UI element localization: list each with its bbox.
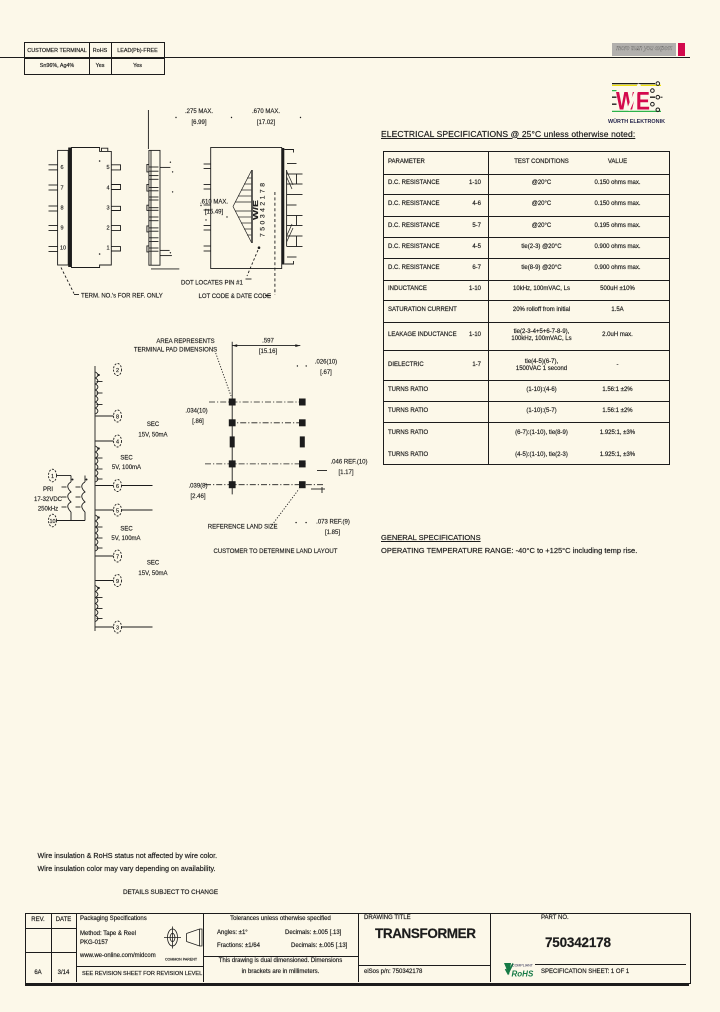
header row	[388, 159, 425, 166]
label SEC 5V 100mA (W3)	[111, 527, 140, 543]
primary label	[34, 487, 63, 513]
top/bottom hooks	[284, 150, 293, 153]
pin1 index notch	[102, 148, 108, 151]
dimension .026(10)	[297, 365, 298, 366]
land pads left column	[229, 399, 236, 489]
pin numbers	[60, 165, 110, 252]
top border line	[0, 57, 690, 58]
svg-text:SEC: SEC	[147, 561, 160, 567]
svg-text:6: 6	[61, 165, 64, 171]
body	[72, 148, 112, 268]
row 6	[388, 286, 427, 293]
right pins	[287, 164, 303, 258]
svg-text:.073 REF.(9): .073 REF.(9)	[316, 520, 350, 526]
svg-text:[6.99]: [6.99]	[191, 120, 206, 126]
wire pin 9 to W4	[96, 580, 114, 582]
spec table	[383, 151, 670, 152]
svg-text:9: 9	[116, 579, 119, 585]
terminal strip	[58, 150, 69, 265]
pin 7	[114, 550, 122, 562]
svg-text:PRI: PRI	[43, 487, 53, 493]
label SEC 5V 100mA (W2)	[112, 456, 141, 472]
svg-text:[.86]: [.86]	[192, 419, 204, 425]
svg-text:8: 8	[116, 415, 119, 421]
row 7	[388, 307, 457, 314]
row 10	[388, 387, 428, 394]
bottom heavy line	[25, 984, 689, 986]
svg-text:REFERENCE LAND SIZE: REFERENCE LAND SIZE	[208, 525, 278, 531]
transformer T1 secondary winding W3 (pins 5-7)	[96, 515, 103, 551]
right pins	[111, 165, 120, 251]
svg-text:4: 4	[116, 440, 119, 446]
row 2	[388, 201, 440, 208]
svg-text:5: 5	[106, 165, 109, 171]
svg-text:3: 3	[106, 206, 109, 212]
svg-text:[1.17]: [1.17]	[338, 470, 353, 476]
svg-text:1: 1	[51, 474, 54, 480]
svg-text:4: 4	[106, 186, 109, 192]
projection symbol	[160, 920, 206, 962]
svg-text:W/E: W/E	[251, 200, 260, 220]
svg-text:CUSTOMER TO DETERMINE LAND LAY: CUSTOMER TO DETERMINE LAND LAYOUT	[214, 549, 338, 555]
svg-text:[17.02]: [17.02]	[257, 120, 276, 126]
svg-text:[.67]: [.67]	[320, 370, 332, 376]
svg-text:750342178: 750342178	[260, 183, 267, 237]
svg-text:.034(10): .034(10)	[185, 409, 207, 415]
row 4	[388, 244, 440, 251]
Wuerth Elektronik logo	[604, 79, 670, 127]
red banner 'more than you expect'	[612, 43, 676, 56]
svg-text:TERM. NO.'s FOR REF. ONLY: TERM. NO.'s FOR REF. ONLY	[81, 294, 163, 300]
pin 10	[49, 514, 57, 527]
svg-text:AREA REPRESENTS: AREA REPRESENTS	[156, 339, 214, 345]
wire W2 to pin 6	[96, 485, 114, 487]
right stubs	[160, 166, 170, 168]
wire pin 4 to W2	[96, 440, 114, 442]
svg-text:.046 REF.(10): .046 REF.(10)	[330, 460, 367, 466]
svg-text:.275 MAX.: .275 MAX.	[185, 109, 213, 115]
svg-text:.039(8): .039(8)	[188, 484, 207, 490]
left pins	[49, 165, 58, 252]
svg-text:7: 7	[116, 555, 119, 561]
label SEC 15V 50mA (W4)	[138, 561, 167, 578]
land pads right column	[299, 399, 306, 489]
svg-text:6: 6	[116, 484, 119, 490]
svg-text:[15.16]: [15.16]	[259, 349, 278, 355]
row 8	[388, 332, 457, 339]
package views svg	[40, 98, 350, 313]
svg-text:[2.46]: [2.46]	[190, 494, 205, 500]
svg-text:15V, 50mA: 15V, 50mA	[138, 571, 167, 577]
svg-text:7: 7	[61, 186, 64, 192]
svg-text:2: 2	[116, 368, 119, 374]
transformer T1 secondary winding W2 (pins 4-6)	[96, 446, 103, 482]
svg-text:DOT LOCATES PIN #1: DOT LOCATES PIN #1	[181, 281, 243, 287]
label SEC 15V 50mA (W1)	[138, 422, 167, 439]
row 5	[388, 265, 440, 272]
wire W1 to pin 8	[96, 415, 114, 417]
winding fan right	[287, 171, 293, 242]
svg-text:TERMINAL PAD DIMENSIONS: TERMINAL PAD DIMENSIONS	[134, 348, 217, 354]
svg-text:9: 9	[61, 226, 64, 232]
row 13	[388, 452, 428, 459]
pin 2	[114, 364, 122, 376]
svg-text:.670 MAX.: .670 MAX.	[252, 109, 280, 115]
row 12	[388, 430, 428, 437]
row 9	[388, 362, 424, 369]
svg-text:RoHS: RoHS	[512, 970, 534, 979]
svg-text:8: 8	[61, 206, 64, 212]
land pattern svg	[135, 330, 380, 560]
pin 4	[114, 435, 122, 447]
svg-text:10: 10	[49, 519, 55, 525]
row 1	[388, 180, 440, 187]
centerline left column	[231, 342, 233, 495]
pin 6	[114, 480, 122, 492]
wire notes	[38, 852, 218, 859]
row 3	[388, 223, 440, 230]
left pin nubs	[147, 164, 149, 252]
heavy body edge	[68, 148, 71, 268]
svg-text:250kHz: 250kHz	[38, 507, 58, 513]
svg-text:5: 5	[116, 509, 119, 515]
left pins	[204, 164, 211, 251]
title block	[25, 913, 691, 984]
svg-text:.597: .597	[262, 339, 274, 345]
pin1 dot and leader	[258, 246, 261, 249]
customer terminal table	[24, 42, 165, 75]
wire W3 to pin 7	[96, 555, 114, 557]
left package view (top view)	[49, 148, 163, 300]
transformer T1 secondary winding W1 (pins 2-8)	[96, 372, 103, 414]
svg-text:.026(10): .026(10)	[315, 360, 337, 366]
right package view (bottom view)	[181, 148, 303, 301]
svg-text:3: 3	[116, 626, 119, 632]
pin 5	[114, 504, 122, 516]
dashed marking boundary	[274, 192, 276, 295]
dimension .670 MAX	[252, 109, 301, 126]
transformer T1 primary winding (pins 1-10)	[57, 476, 88, 521]
svg-text:17-32VDC: 17-32VDC	[34, 497, 63, 503]
svg-text:COMPLIANT: COMPLIANT	[512, 964, 534, 968]
leader to note	[61, 268, 74, 294]
svg-text:10: 10	[60, 246, 66, 252]
svg-text:SEC: SEC	[120, 456, 133, 462]
internal ticks	[149, 167, 159, 251]
svg-text:LOT CODE & DATE CODE: LOT CODE & DATE CODE	[199, 294, 271, 300]
svg-text:1: 1	[106, 246, 109, 252]
pin 1	[49, 469, 57, 482]
svg-text:WÜRTH ELEKTRONIK: WÜRTH ELEKTRONIK	[608, 118, 665, 125]
dimension .597	[232, 345, 300, 347]
pin 8	[114, 410, 122, 422]
wire pin 5 to W3	[96, 509, 114, 511]
svg-text:.610 MAX.: .610 MAX.	[200, 200, 228, 206]
middle package view (side view)	[147, 150, 179, 269]
dimension .275 MAX	[148, 109, 232, 149]
transformer T1 core	[94, 366, 96, 631]
pad row centerlines (dash-dot)	[205, 402, 325, 485]
pin 3	[114, 621, 122, 633]
svg-text:COMMON PARENT: COMMON PARENT	[165, 958, 198, 962]
svg-text:SEC: SEC	[120, 527, 133, 533]
schematic svg	[30, 330, 260, 660]
svg-text:2: 2	[106, 226, 109, 232]
RoHS compliant logo	[502, 961, 536, 979]
general specifications	[381, 534, 481, 543]
dimension .073 REF.(8)	[295, 522, 296, 523]
winding wedge left	[233, 170, 253, 243]
wire pin10 to primary	[57, 520, 85, 522]
wire W4 to pin 3	[96, 626, 114, 628]
ELECTRICAL SPECIFICATIONS heading	[381, 130, 635, 139]
svg-text:[1.85]: [1.85]	[325, 530, 340, 536]
row 11	[388, 408, 428, 415]
transformer T1 secondary winding W4 (pins 9-3)	[96, 586, 103, 622]
pin 9	[114, 575, 122, 587]
svg-text:[15.49]: [15.49]	[205, 210, 224, 216]
